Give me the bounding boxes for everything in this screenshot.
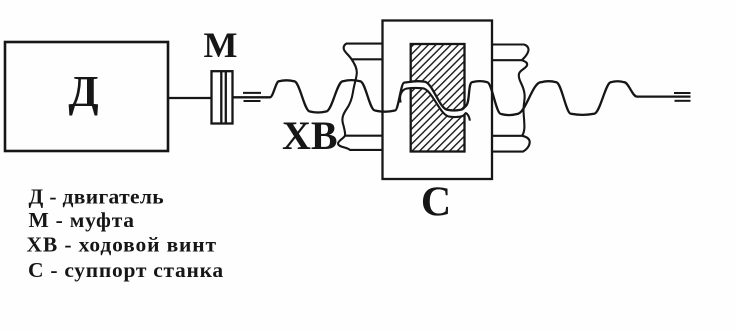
right break-away flange of carriage [492,45,530,152]
carriage outer box C [383,21,493,180]
left break-away flange of carriage [338,44,382,150]
svg-text:С: С [421,180,451,226]
coupling M body [212,71,233,123]
svg-text:М: М [204,25,238,65]
nut block hatched [411,44,465,152]
wire: shaft motor to coupling [168,97,212,99]
svg-text:ХВ - ходовой винт: ХВ - ходовой винт [27,233,217,257]
svg-text:Д - двигатель: Д - двигатель [29,185,165,209]
svg-text:Д: Д [68,67,98,116]
svg-text:ХВ: ХВ [282,113,338,158]
motor box Д [5,42,168,151]
bearing mark (triple line) after coupling [243,93,261,101]
lead screw wavy line XB [234,80,691,115]
lower thread line of screw in nut [400,88,470,121]
svg-text:С - суппорт станка: С - суппорт станка [28,258,224,282]
bearing mark (triple line) right end [674,93,691,101]
svg-text:М - муфта: М - муфта [29,208,135,232]
white channel of screw through nut [404,85,466,113]
